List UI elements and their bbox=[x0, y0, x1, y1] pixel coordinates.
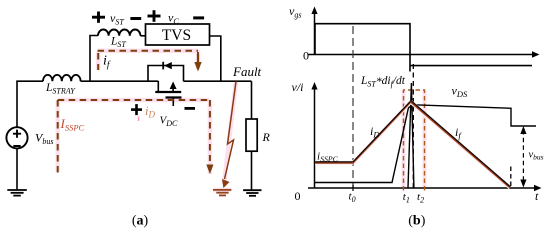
fault bolt bbox=[225, 82, 237, 180]
curve i_SSPC flat (red+black) bbox=[315, 162, 353, 164]
source V_bus bbox=[6, 127, 27, 148]
curve v_DS bbox=[315, 105, 536, 183]
ground (fault, brown) bbox=[213, 190, 231, 196]
axis v_gs vertical bbox=[314, 10, 316, 55]
wire: TVS to right vertical down to drain rail bbox=[210, 36, 221, 81]
arrow i_f down bbox=[197, 54, 199, 63]
ground (right, black) bbox=[243, 190, 261, 196]
curve v_DS overshoot spike bbox=[408, 83, 414, 188]
curve i_f fall (red+black) bbox=[411, 102, 510, 188]
wire: L_ST to TVS bbox=[140, 35, 145, 37]
ground (left, black) bbox=[7, 190, 27, 196]
label plus (v_C) bbox=[148, 10, 161, 22]
resistor R bbox=[246, 119, 257, 151]
svg-text:R: R bbox=[262, 130, 271, 144]
tick t0 bbox=[352, 185, 354, 191]
mosfet Q1: body diode loop bbox=[148, 66, 184, 82]
svg-text:Fault: Fault bbox=[232, 64, 262, 79]
v_bus measure arrow bbox=[522, 130, 524, 182]
wire: down to resistor R bbox=[251, 81, 253, 119]
wire: L_STRAY to mosfet drain bbox=[81, 80, 159, 82]
label minus (v_ST) bbox=[130, 17, 141, 20]
svg-text:0: 0 bbox=[303, 49, 309, 63]
pink halo under red dashed markers bbox=[404, 90, 425, 188]
svg-text:0: 0 bbox=[295, 189, 301, 203]
mosfet Q1: gate stem bbox=[172, 98, 174, 107]
pink halo under ramps bbox=[315, 102, 510, 188]
axis v/i horizontal bbox=[308, 187, 536, 189]
label plus (v_ST) bbox=[92, 12, 105, 23]
label plus (V_DC) bbox=[131, 104, 142, 115]
TVS box bbox=[146, 24, 210, 45]
mosfet Q1: body diode symbol bbox=[164, 62, 172, 69]
mosfet Q1: channel plate bbox=[155, 91, 181, 93]
mosfet Q1: gate bar bbox=[166, 96, 182, 98]
mosfet Q1: source arrow bbox=[172, 86, 174, 92]
wire: mosfet to fault node bbox=[184, 80, 252, 82]
svg-text:TVS: TVS bbox=[162, 27, 191, 44]
mosfet Q1: drain step bbox=[157, 81, 159, 92]
svg-text:v/i: v/i bbox=[292, 80, 304, 94]
axis v/i vertical bbox=[314, 86, 316, 188]
dashed line t1 (black, spans to top graph) bbox=[412, 64, 414, 188]
axis v_gs horizontal bbox=[308, 54, 534, 56]
dashed line at i_f zero crossing bbox=[510, 167, 512, 187]
svg-text:LST*dif/dt: LST*dif/dt bbox=[360, 75, 406, 89]
wire: source to ground bbox=[16, 149, 18, 190]
inductor L_ST bbox=[98, 29, 140, 35]
svg-text:(b): (b) bbox=[408, 214, 425, 229]
red dashed marker rectangle t1-t2 bbox=[404, 90, 425, 191]
wire: upper branch left vertical bbox=[90, 36, 98, 82]
label minus (V_DC) bbox=[185, 107, 196, 110]
pink halo under dashed loops bbox=[58, 50, 236, 190]
pink tick under i_D bbox=[138, 117, 140, 122]
wire: source top to left corner bbox=[17, 81, 43, 127]
arrow I_SSPC down bbox=[206, 165, 213, 175]
dashed loop i_f (TVS branch) bbox=[98, 51, 199, 70]
inductor L_STRAY bbox=[43, 75, 81, 81]
dashed loop I_SSPC / i_D (fault path) bbox=[58, 100, 210, 173]
curve i_D rise (red+black) bbox=[353, 102, 411, 163]
label minus (v_C) bbox=[193, 16, 204, 19]
wire: resistor to ground bbox=[251, 151, 253, 189]
svg-text:(a): (a) bbox=[132, 214, 149, 229]
dashed line t0 (spans both graphs) bbox=[352, 26, 354, 188]
curve v_gs pulse bbox=[315, 24, 532, 72]
